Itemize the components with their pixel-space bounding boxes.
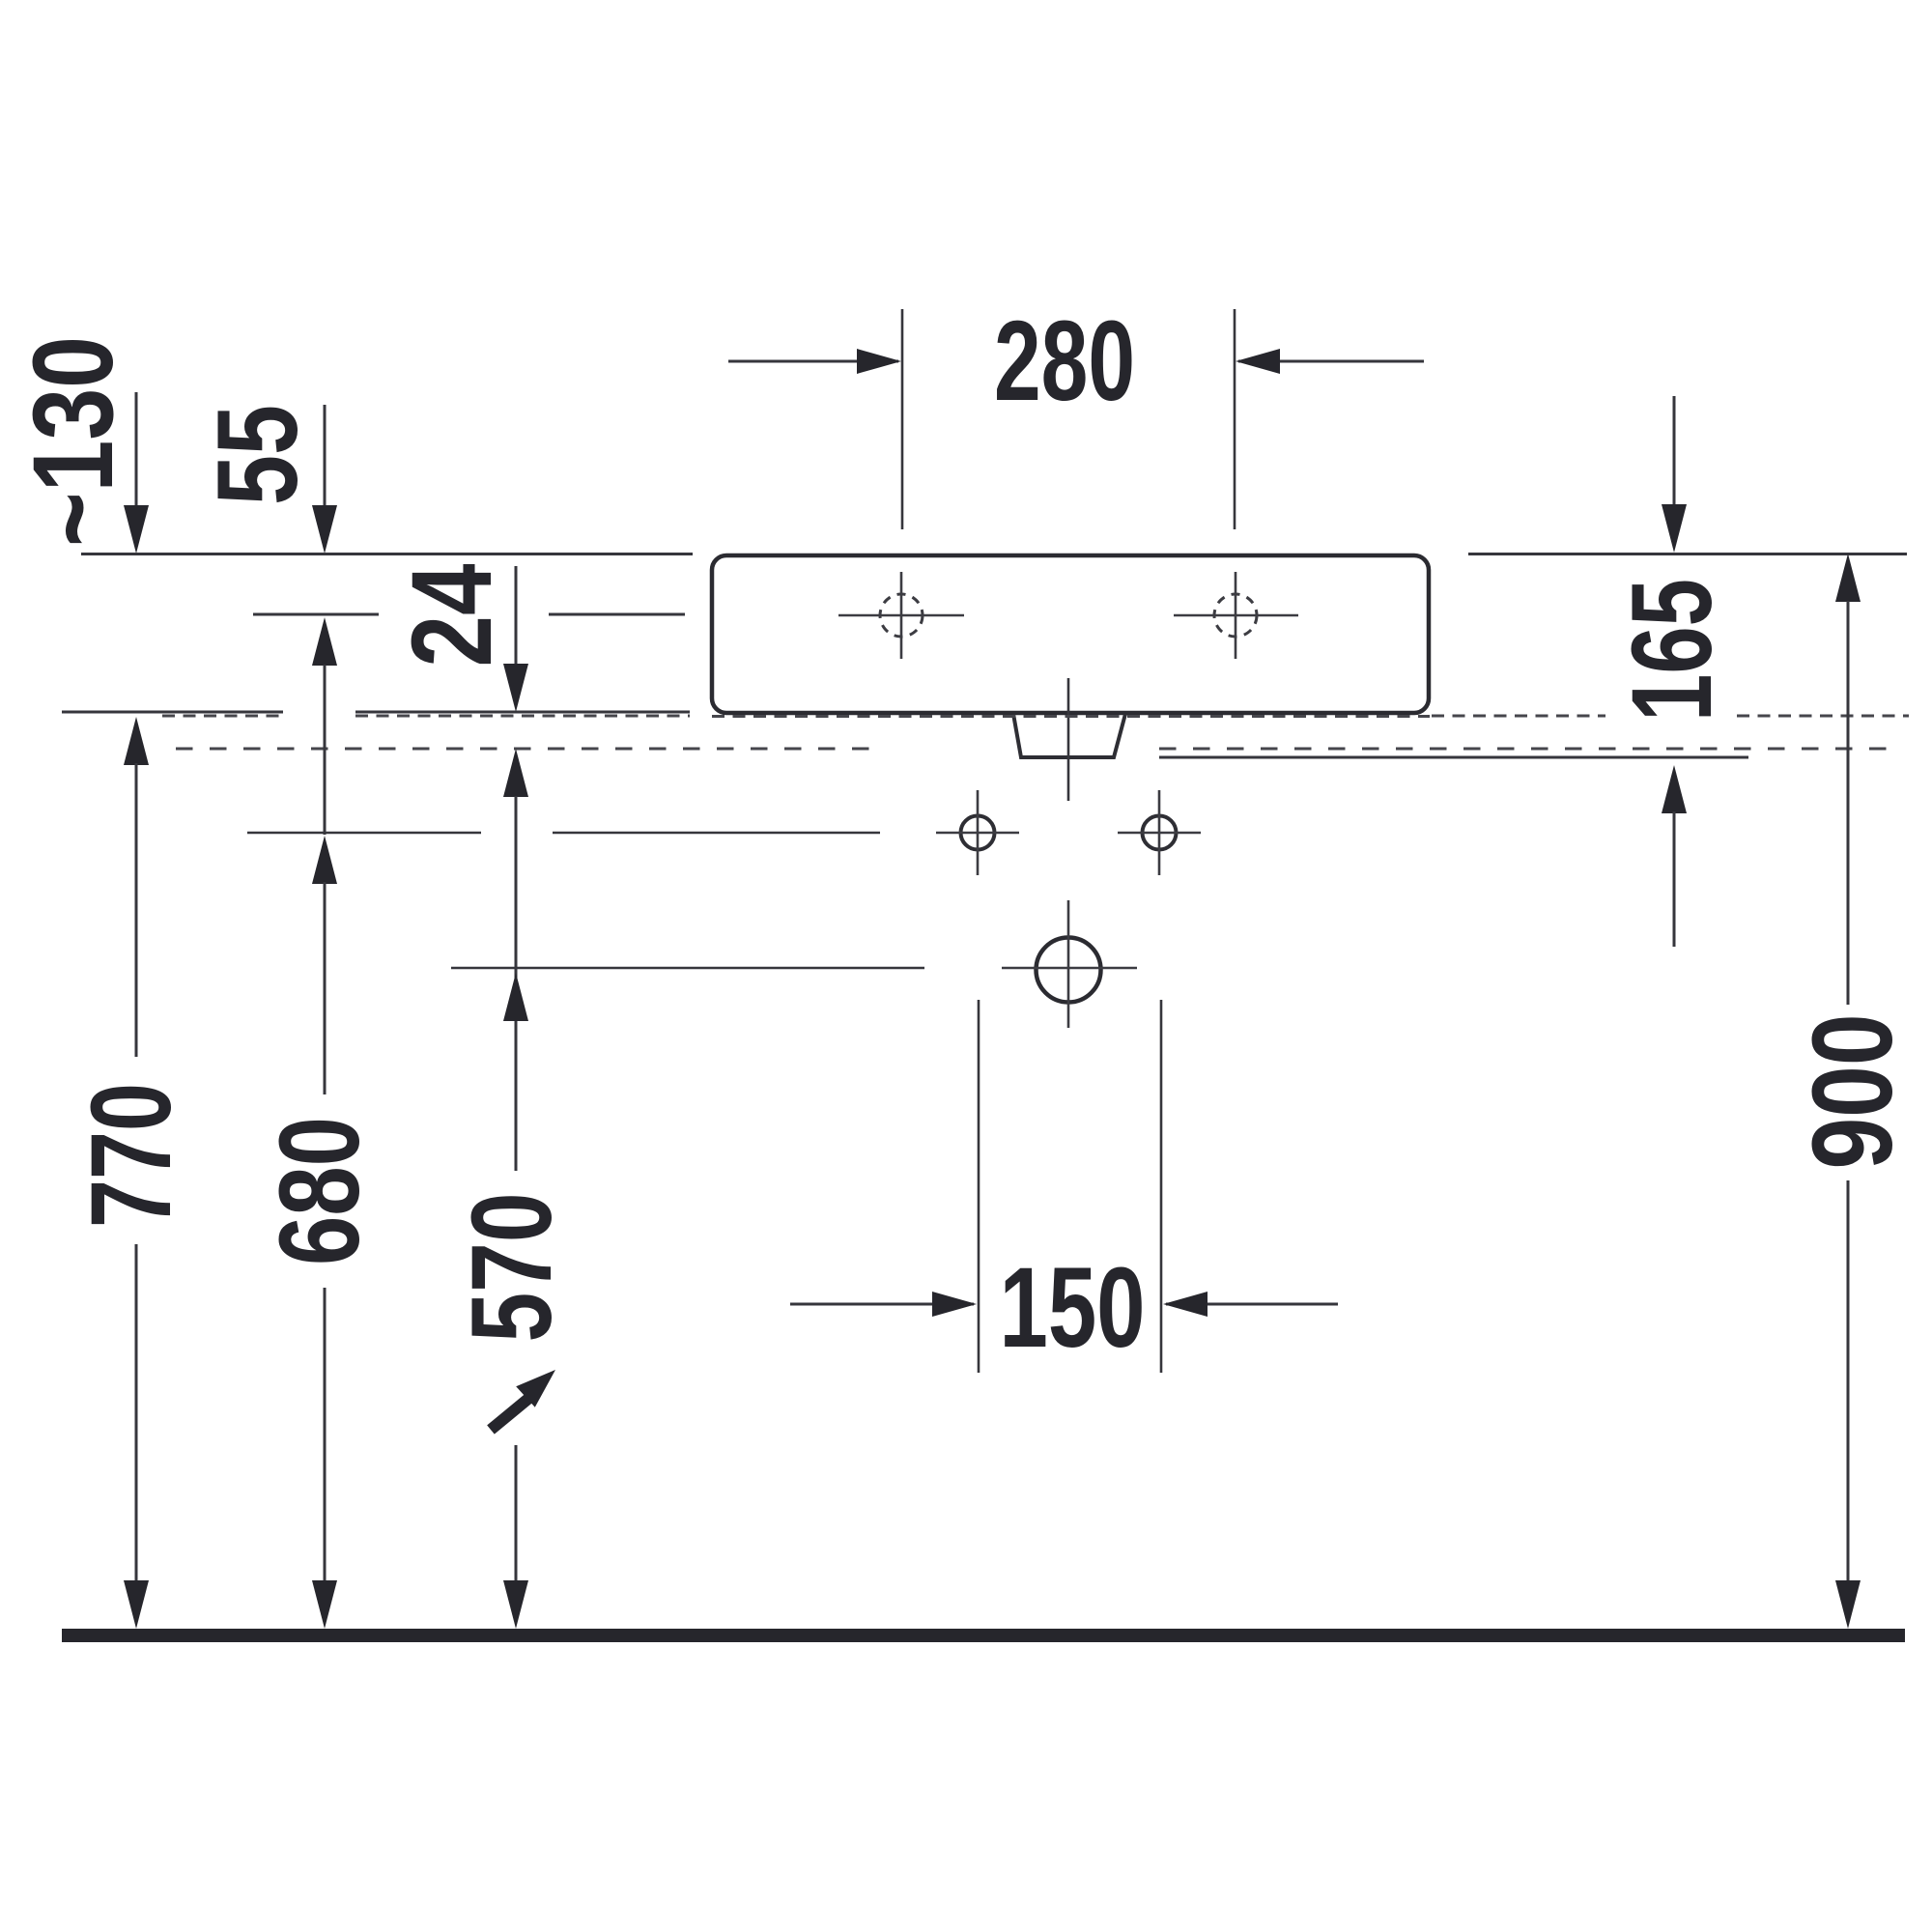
wall top reference line left segment <box>81 553 693 555</box>
console solid line left segments <box>62 711 690 714</box>
mounting hole left <box>936 790 1019 875</box>
vertical dimension line x141 with 770 <box>124 717 149 1629</box>
dimension 280 dimension line and arrows <box>728 349 1424 374</box>
vertical dimension line x534 with 570 <box>503 749 528 1629</box>
drain direction arrow symbol <box>491 1370 555 1430</box>
dimension ~130 down arrow at x141 <box>124 392 149 554</box>
label 680 rotated <box>256 1117 384 1265</box>
basin outline <box>712 555 1429 713</box>
svg-text:570: 570 <box>448 1193 576 1343</box>
hidden dashed line 2 <box>176 748 1893 751</box>
svg-text:165: 165 <box>1608 579 1736 722</box>
svg-text:680: 680 <box>256 1117 384 1265</box>
label 900 rotated <box>1789 1014 1917 1170</box>
label ~130 rotated <box>10 336 137 547</box>
vertical dimension line x1913 with 900 <box>1835 554 1861 1629</box>
label 55 rotated <box>194 405 322 505</box>
dimension 55 down arrow at x336 <box>312 405 337 554</box>
drain tailpiece trapezoid <box>1013 714 1125 757</box>
floor line <box>62 1629 1905 1642</box>
svg-text:24: 24 <box>388 564 516 668</box>
dimension 165 bottom arrow <box>1662 765 1687 947</box>
svg-text:150: 150 <box>1000 1244 1146 1372</box>
wall top reference line right segment <box>1468 553 1907 555</box>
svg-text:280: 280 <box>994 298 1135 425</box>
drain reference line <box>451 967 924 970</box>
label 570 rotated <box>448 1193 576 1343</box>
svg-text:770: 770 <box>68 1083 195 1228</box>
label 280 <box>994 298 1135 425</box>
dimension 165 top arrow <box>1662 396 1687 553</box>
dimension 150 extension lines <box>979 1000 1161 1373</box>
lower solid reference line right <box>1159 756 1748 759</box>
label 24 rotated <box>388 564 516 668</box>
svg-text:55: 55 <box>194 405 322 505</box>
svg-text:~130: ~130 <box>10 336 137 547</box>
vertical dimension line x336 with 680 <box>312 665 337 1629</box>
mounting holes reference line <box>247 832 880 835</box>
drain hole circle <box>1002 900 1137 1028</box>
label 770 rotated <box>68 1083 195 1228</box>
basin vertical centerline <box>1067 678 1070 801</box>
faucet hole left crosshair <box>838 572 964 659</box>
dimension 280 extension lines <box>902 309 1235 529</box>
up arrow to 24 text line at x336 <box>312 617 337 666</box>
faucet hole right crosshair <box>1174 572 1298 659</box>
label 150 <box>1000 1244 1146 1372</box>
hidden dashed line 1 <box>162 715 1909 719</box>
mounting hole right <box>1118 790 1201 875</box>
label 165 rotated <box>1608 579 1736 722</box>
svg-text:900: 900 <box>1789 1014 1917 1170</box>
dimension 150 dimension line and arrows <box>790 1292 1338 1317</box>
dimension 24 arrow down at x534 <box>503 566 528 712</box>
text reference line for 24 <box>253 613 685 616</box>
